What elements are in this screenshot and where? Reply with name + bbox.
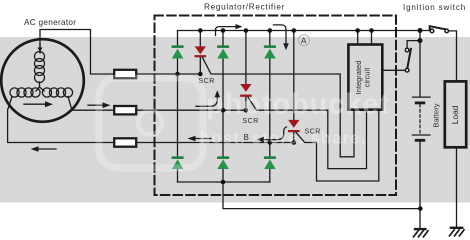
wire diode column 1 <box>177 31 179 46</box>
flow arrow phase 2 <box>88 102 111 108</box>
connector block J2 <box>114 106 136 114</box>
wire SCR3 column <box>293 31 295 120</box>
flow arrow on positive bus <box>216 24 243 36</box>
thyristor SCR3 <box>288 120 300 132</box>
wire phase 2 into rectifier <box>136 109 246 111</box>
node A <box>298 35 309 46</box>
connector block J1 <box>114 70 136 78</box>
wire U1 right pin to ignition switch <box>382 69 407 71</box>
rotor flow arrow <box>24 101 53 107</box>
svg-text:Regulator/Rectifier: Regulator/Rectifier <box>204 3 285 12</box>
ignition switch S1 lower pole <box>405 48 411 72</box>
wire SCR2 column <box>245 31 247 85</box>
svg-text:A: A <box>301 36 307 45</box>
svg-text:Battery: Battery <box>432 103 441 127</box>
thyristor SCR2 <box>240 84 252 97</box>
flow arrow at SCR1 gate <box>196 90 220 106</box>
load LD1 <box>445 81 466 147</box>
svg-text:AC generator: AC generator <box>24 18 76 27</box>
flow arrow phase 3 outside <box>31 146 57 152</box>
svg-text:Ignition switch: Ignition switch <box>403 3 466 12</box>
wire battery to ground <box>419 142 421 228</box>
ground G-B (load) <box>450 227 465 236</box>
diode D2 <box>217 45 229 58</box>
wire SCR1 gate <box>203 58 355 157</box>
connector block J3 <box>114 138 136 146</box>
grey photo band background <box>0 37 470 203</box>
wire phase 3 into rectifier <box>136 142 294 144</box>
svg-text:host. store. share.: host. store. share. <box>200 130 367 148</box>
diode D3 <box>264 45 276 58</box>
wire SCR3 gate <box>296 110 379 181</box>
flow arrow near node B <box>257 127 287 142</box>
wire phase 2 from right coil <box>68 97 114 111</box>
ground G-A (battery) <box>414 228 429 237</box>
winding L3 (right coil) <box>40 87 73 97</box>
svg-text:photobucket: photobucket <box>206 89 390 121</box>
diode D6 <box>264 156 276 169</box>
diode D1 <box>172 45 184 58</box>
wire negative bus <box>178 181 270 183</box>
battery BT1 <box>413 97 431 142</box>
wire switch to load <box>449 31 457 82</box>
thyristor SCR1 <box>195 46 207 57</box>
flow arrow down at node A <box>274 25 289 50</box>
svg-text:Load: Load <box>450 105 460 124</box>
diode D4 <box>172 156 184 169</box>
diode D5 <box>217 156 229 169</box>
ignition switch S1 upper pole <box>430 26 449 33</box>
wire diode column 3 <box>269 31 271 46</box>
wire positive bus <box>178 30 431 32</box>
wire U1 top pin 2 <box>371 31 373 45</box>
wire load to ground <box>456 147 458 227</box>
svg-text:circuit: circuit <box>363 67 372 88</box>
wire diode column 2 <box>222 31 224 46</box>
integrated circuit U1 <box>348 45 382 110</box>
flow arrow phase 3 inside box <box>188 136 212 142</box>
watermark <box>99 78 203 168</box>
wire battery feed <box>419 41 421 97</box>
wire U1 top pin 1 <box>357 31 359 45</box>
AC generator G1 stator circle <box>1 39 84 122</box>
wire phase 1 into rectifier <box>136 73 200 75</box>
wire ground return <box>223 182 420 209</box>
regulator/rectifier dashed enclosure <box>155 16 397 196</box>
winding L1 (top coil) <box>35 44 45 87</box>
winding L2 (left coil) <box>10 87 40 97</box>
label Integrated circuit <box>354 61 372 95</box>
wire SCR1 column <box>199 31 201 47</box>
wire to lower pole <box>407 41 420 49</box>
wire switch node <box>419 31 421 41</box>
wire phase 1 from generator top <box>40 30 114 75</box>
wire SCR2 gate <box>248 97 367 168</box>
wire phase 3 from left coil <box>8 97 115 143</box>
